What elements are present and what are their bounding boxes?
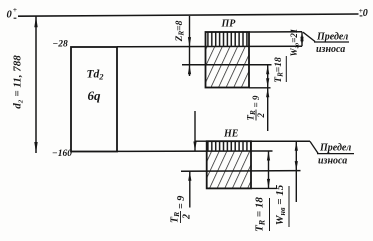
- dimension ZR line: [188, 16, 191, 76]
- svg-text:TR=18: TR=18: [274, 57, 285, 83]
- svg-text:−28: −28: [53, 40, 69, 50]
- svg-text:2: 2: [256, 113, 266, 119]
- svg-text:d₂ = 11, 788: d₂ = 11, 788: [12, 55, 24, 109]
- label +-0 right: [359, 6, 368, 19]
- NE box top extension left: [195, 140, 207, 142]
- PR box bottom extension: [249, 87, 271, 89]
- svg-text:НЕ: НЕ: [223, 129, 239, 140]
- dimension W line (NE): [295, 141, 298, 202]
- svg-text:износа: износа: [318, 156, 347, 167]
- middle line NE field: [181, 170, 301, 173]
- label PR: [221, 19, 237, 30]
- label 6g: [88, 88, 102, 103]
- gauge box NE: [207, 141, 251, 188]
- label 0+- left: [7, 5, 18, 20]
- label W=15 (NE): [274, 184, 289, 227]
- label Td2: [87, 69, 105, 82]
- svg-text:Wго=21: Wго=21: [289, 29, 301, 57]
- svg-text:6q: 6q: [88, 88, 102, 103]
- label NE: [223, 129, 239, 140]
- svg-text:= 9: = 9: [251, 95, 261, 107]
- svg-text:TR: TR: [170, 212, 182, 223]
- NE box bottom extension: [251, 187, 277, 189]
- line B middle of PR field: [182, 64, 272, 66]
- wear limit note PR: [303, 32, 349, 56]
- svg-text:TR = 18: TR = 18: [254, 197, 267, 232]
- svg-text:= 9: = 9: [176, 196, 187, 209]
- dimension TR line (PR): [266, 65, 269, 131]
- label TR=18 (PR): [274, 56, 286, 83]
- wear limit note NE: [310, 141, 354, 166]
- dimension TR/2 (NE) upper stub: [193, 111, 196, 151]
- svg-text:ZR=8: ZR=8: [175, 20, 186, 42]
- svg-text:0: 0: [7, 9, 13, 20]
- label TR=18 (NE): [254, 197, 270, 232]
- line -28 level: [117, 45, 302, 48]
- svg-text:Предел: Предел: [316, 32, 348, 43]
- dimension TR line (NE): [267, 151, 270, 188]
- svg-text:0: 0: [363, 8, 368, 19]
- svg-text:−160: −160: [52, 149, 72, 159]
- svg-text:износа: износа: [316, 44, 345, 55]
- label d2 = 11,788: [12, 55, 24, 109]
- wear limit line NE (top extension right): [251, 140, 310, 142]
- svg-text:ПР: ПР: [221, 19, 237, 30]
- svg-text:2: 2: [182, 214, 193, 220]
- svg-text:Wнв = 15: Wнв = 15: [274, 184, 287, 225]
- gauge box PR: [206, 32, 250, 88]
- dimension d2 line: [34, 16, 37, 153]
- dimension TR/2 (NE) lower stub: [188, 171, 191, 207]
- label TR/2=9 (PR): [246, 95, 267, 120]
- line -160 level: [117, 150, 273, 152]
- svg-text:Предел: Предел: [319, 143, 351, 154]
- label W=21 (PR): [289, 29, 301, 57]
- wear limit line PR: [249, 31, 302, 33]
- label -28: [53, 40, 69, 50]
- label ZR=8: [175, 20, 186, 42]
- dimension W line (PR): [300, 32, 303, 47]
- label -160: [52, 149, 72, 159]
- svg-text:+: +: [13, 5, 17, 14]
- tolerance box Td2: [71, 47, 117, 152]
- zero line: [18, 14, 359, 16]
- label TR/2=9 (NE): [170, 196, 193, 223]
